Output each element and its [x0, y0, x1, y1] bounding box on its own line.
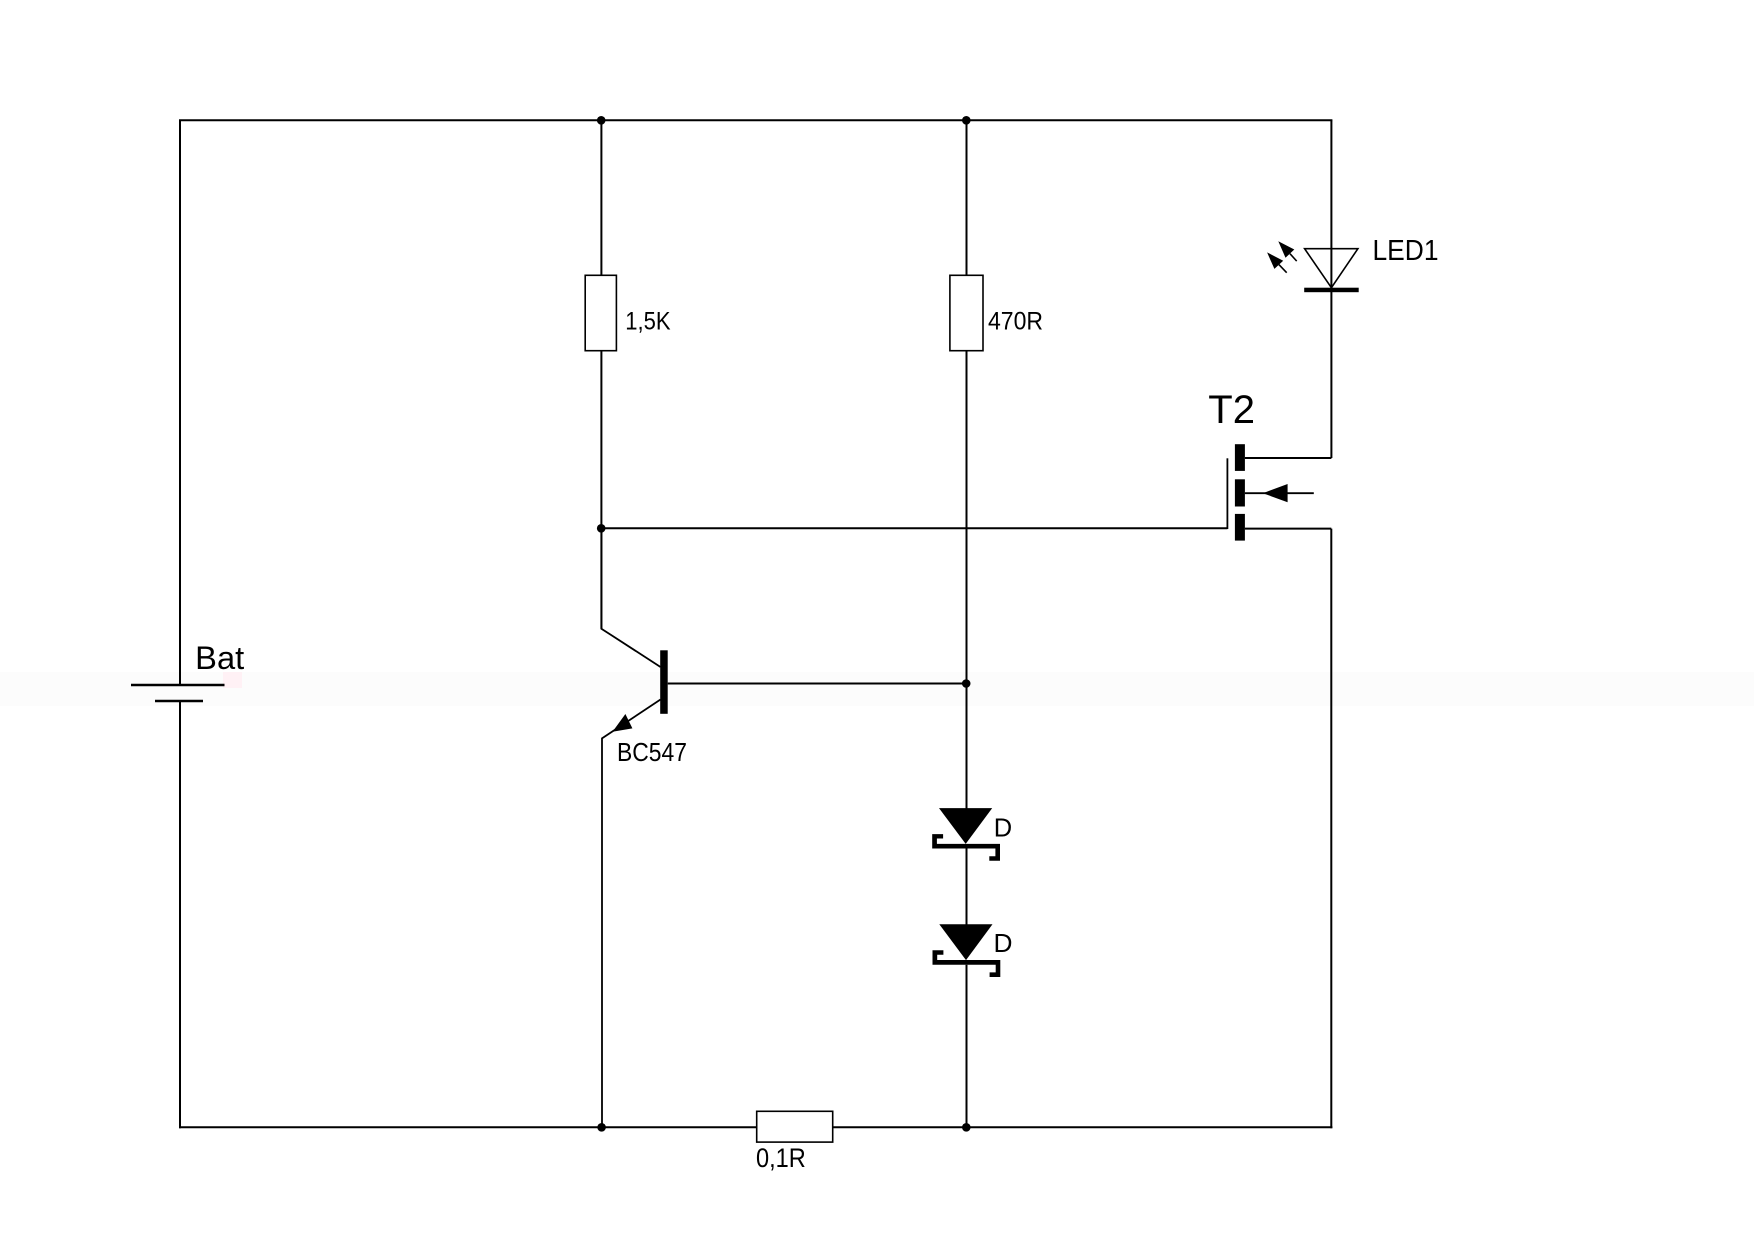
transistor Q1 BC547 base wire [668, 683, 967, 685]
wire left (battery negative side) [179, 701, 181, 1128]
battery Bat negative plate [155, 700, 203, 702]
transistor T2 body arrowhead [1263, 484, 1288, 502]
wire T2 source down to bottom rail [1330, 529, 1332, 1129]
diode D2 anode triangle [939, 924, 992, 960]
svg-text:0,1R: 0,1R [756, 1143, 806, 1173]
LED LED1 cathode bar [1304, 288, 1359, 293]
wire diode D2 to bottom rail [966, 965, 968, 1129]
svg-text:D: D [994, 928, 1013, 958]
wire LED branch (top rail to T2 drain) [1330, 120, 1332, 458]
transistor T2 source wire [1245, 528, 1331, 530]
wire 470R branch upper [966, 120, 968, 274]
resistor R3 0,1R body [757, 1111, 833, 1142]
wire 1,5K bottom to gate node and BC547 collector [600, 352, 602, 629]
LED LED1 triangle [1305, 249, 1358, 288]
transistor Q1 BC547 base bar [660, 650, 668, 714]
wire bottom rail [179, 1126, 1332, 1128]
LED LED1 emission arrow upper [1290, 254, 1297, 262]
transistor T2 drain wire [1245, 457, 1332, 459]
transistor T2 body wire [1245, 492, 1314, 494]
transistor T2 source channel bar [1235, 514, 1245, 541]
wire 1,5K branch upper [600, 120, 602, 274]
wire gate (node to T2 gate) [600, 527, 1227, 529]
scan artifact smudge [223, 672, 242, 688]
diode D1 schottky cathode bar [932, 834, 1000, 861]
transistor T2 drain channel bar [1235, 444, 1245, 471]
wire between diodes [966, 849, 968, 925]
transistor T2 body channel bar [1235, 479, 1245, 506]
node gate junction [597, 524, 606, 533]
svg-text:Bat: Bat [195, 640, 244, 676]
LED LED1 emission arrow lower [1279, 265, 1287, 273]
resistor R1 1,5K body [585, 275, 616, 350]
svg-text:1,5K: 1,5K [625, 308, 671, 336]
transistor Q1 BC547 emitter arrowhead [613, 714, 633, 732]
node bottom rail / emitter branch [597, 1123, 606, 1132]
node top rail / 470R branch [962, 116, 971, 125]
battery Bat positive plate [131, 684, 225, 686]
svg-text:BC547: BC547 [617, 739, 687, 767]
scan artifact band [0, 672, 1754, 706]
diode D2 schottky cathode bar [933, 950, 1001, 977]
node bottom rail / diode branch [962, 1123, 971, 1132]
transistor Q1 BC547 emitter wire [602, 700, 661, 1129]
svg-text:T2: T2 [1208, 388, 1255, 432]
resistor R2 470R body [950, 275, 983, 350]
transistor T2 gate line [1226, 458, 1228, 529]
svg-text:LED1: LED1 [1373, 235, 1439, 267]
wire 470R bottom down to diode D1 [966, 352, 968, 809]
svg-text:D: D [994, 812, 1012, 842]
node base junction [962, 679, 971, 688]
diode D1 anode triangle [939, 808, 992, 844]
wire top rail [179, 119, 1332, 121]
svg-text:470R: 470R [988, 308, 1043, 336]
transistor Q1 BC547 collector wire [601, 528, 660, 667]
wire left (battery positive side) [179, 120, 181, 685]
node top rail / 1,5K branch [597, 116, 606, 125]
